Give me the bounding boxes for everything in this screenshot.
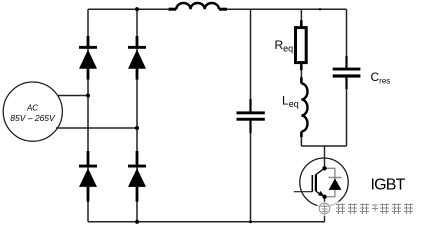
wire Req Leq branch [300, 9, 302, 146]
transistor Q1 IGBT [294, 158, 348, 206]
svg-text:Cres: Cres [371, 70, 391, 86]
inductor L1 [169, 3, 227, 9]
junction AC upper to left column [86, 93, 90, 97]
junction AC lower to second column [135, 126, 139, 130]
wire bottom rail [88, 221, 325, 223]
wire left column [87, 9, 89, 222]
wire top rail [88, 8, 347, 10]
watermark logo [319, 203, 330, 214]
wire Cres branch [346, 9, 348, 146]
svg-text:AC: AC [26, 103, 38, 112]
svg-text:Req: Req [275, 38, 294, 54]
wire AC upper terminal [58, 95, 89, 97]
svg-text:85V – 265V: 85V – 265V [10, 113, 56, 123]
capacitor Cres [333, 56, 361, 89]
diode D4 [128, 151, 146, 202]
diode D2 [128, 36, 146, 80]
watermark glow backing [317, 202, 416, 217]
wire IGBT collector [324, 146, 326, 168]
svg-text:Leq: Leq [282, 94, 299, 110]
junction bottom rail at D4 column [135, 220, 139, 224]
wire C1 branch [250, 9, 252, 222]
diode D1 [79, 36, 97, 80]
wire second column [136, 9, 138, 222]
wire AC lower terminal [56, 127, 137, 129]
wire connector Leq Cres to IGBT [301, 145, 346, 147]
junction top rail at D2 column [135, 7, 139, 11]
junction small mark top rail [319, 8, 321, 10]
junction bottom rail at C1 column [249, 220, 252, 223]
capacitor C1 [237, 99, 265, 133]
svg-text:IGBT: IGBT [371, 176, 406, 193]
AC source V1 [3, 82, 62, 141]
wire IGBT emitter [324, 197, 326, 222]
diode D3 [79, 151, 97, 202]
watermark text [336, 204, 413, 215]
inductor Leq [301, 77, 307, 137]
resistor Req [296, 20, 307, 70]
